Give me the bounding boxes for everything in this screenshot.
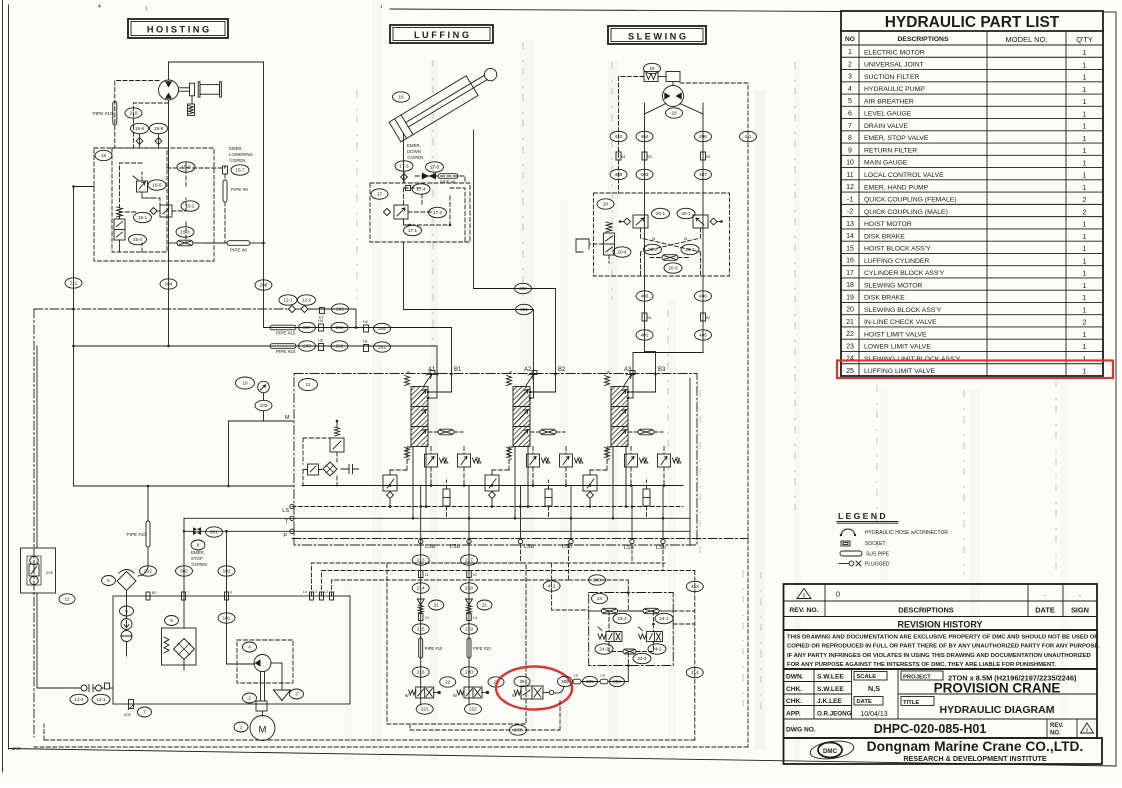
needle valve under 17-3	[401, 172, 408, 184]
pilot dash 413 414	[663, 544, 695, 740]
crossover X wires	[641, 228, 701, 276]
svg-text:301: 301	[520, 307, 528, 312]
svg-text:19: 19	[649, 66, 655, 71]
svg-text:LSa: LSa	[624, 545, 635, 551]
balloon 217	[461, 555, 478, 565]
svg-text:406: 406	[699, 294, 707, 299]
check and pipe #6 luffing	[415, 173, 465, 185]
bank cross wire y485	[302, 485, 683, 487]
svg-text:216: 216	[417, 670, 425, 675]
svg-text:15: 15	[101, 153, 107, 158]
section 3 y485 cross wire	[589, 484, 666, 487]
balloon 25	[514, 676, 530, 686]
fitting L hoist limit chain upper	[418, 571, 428, 578]
svg-text:0: 0	[803, 593, 806, 599]
pipe #10 capsule lower limit chain	[467, 638, 491, 658]
in-line check valve 21 lower limit chain	[466, 599, 473, 613]
balloon 205	[374, 323, 391, 333]
inlet dash box	[303, 438, 330, 464]
LUFFING section title box	[390, 25, 493, 43]
balloon 19	[644, 63, 661, 73]
hydraulic part list table	[841, 11, 1103, 376]
balloon 307	[510, 725, 527, 735]
balloon 602	[176, 566, 193, 576]
balloon 12-2	[70, 694, 88, 704]
svg-text:STOP: STOP	[191, 556, 203, 561]
svg-text:202: 202	[336, 344, 344, 349]
hoist block inner dashed box	[112, 148, 167, 252]
balloon 206	[331, 322, 348, 332]
balloon 20-1 left	[652, 208, 670, 218]
svg-text:12: 12	[846, 184, 854, 191]
balloon 209	[332, 304, 349, 314]
control section 1 spool	[405, 371, 436, 462]
disclaimer text block	[784, 630, 1101, 669]
svg-text:15-4: 15-4	[133, 237, 143, 242]
balloon 218	[461, 583, 478, 593]
hoist limit valve 22	[405, 687, 441, 698]
balloon 17-5	[426, 162, 444, 172]
balloon 203	[299, 341, 316, 351]
svg-text:1: 1	[1083, 344, 1087, 351]
svg-text:W: W	[407, 371, 411, 375]
svg-text:404: 404	[641, 134, 649, 139]
port labels A2 B2	[524, 367, 566, 375]
pilot dash 412	[521, 544, 589, 610]
svg-text:15-3: 15-3	[180, 230, 190, 235]
svg-text:W: W	[607, 371, 611, 375]
section 3 ls shuttle	[643, 480, 650, 518]
svg-text:206: 206	[336, 325, 344, 330]
legend title	[837, 511, 898, 523]
svg-text:DATE: DATE	[1035, 606, 1055, 615]
balloon 17-2	[429, 207, 447, 217]
svg-text:23: 23	[846, 343, 854, 350]
hoist limit chain wire	[420, 540, 422, 705]
svg-text:AIR BREATHER: AIR BREATHER	[864, 98, 914, 105]
balloon 2	[243, 693, 257, 703]
svg-text:LS: LS	[601, 674, 606, 678]
balloon 5	[102, 576, 116, 586]
svg-text:H O I S T I N G: H O I S T I N G	[147, 25, 209, 35]
svg-text:17: 17	[846, 270, 854, 277]
lower limit chain wire	[468, 540, 470, 705]
svg-text:219: 219	[465, 627, 473, 632]
svg-text:PIPE #6: PIPE #6	[230, 248, 247, 253]
balloon 306	[558, 676, 573, 686]
svg-text:EMER, STOP VALVE: EMER, STOP VALVE	[864, 135, 929, 142]
svg-text:TITLE: TITLE	[903, 700, 919, 706]
svg-text:H1: H1	[363, 340, 368, 344]
svg-text:1: 1	[1083, 369, 1087, 376]
lower limit valve 23	[453, 687, 489, 698]
quick couplings 12-1 12-2 to tank	[37, 683, 113, 692]
electric motor 1	[250, 711, 275, 741]
balloon 216	[412, 667, 429, 677]
limit chain box dash	[387, 563, 526, 724]
svg-text:RETURN FILTER: RETURN FILTER	[864, 147, 917, 154]
balloon 23	[488, 677, 504, 687]
svg-text:ELECTRIC MOTOR: ELECTRIC MOTOR	[864, 49, 925, 56]
emer hand pump 12 box	[21, 548, 56, 593]
svg-text:LSb: LSb	[450, 544, 460, 550]
wire slewing A3 B3 crossing	[633, 352, 703, 375]
emer stop label	[191, 550, 207, 567]
pilot dash 303	[569, 544, 633, 593]
svg-text:EMER, HAND PUMP: EMER, HAND PUMP	[864, 184, 929, 191]
svg-text:HOIST LIMIT VALVE: HOIST LIMIT VALVE	[864, 331, 927, 338]
brake pilot dash slewing	[619, 77, 645, 194]
svg-text:61: 61	[622, 155, 626, 159]
slewing drain dash 411	[680, 83, 748, 747]
revision history table	[784, 584, 1098, 630]
svg-text:DMC: DMC	[823, 748, 838, 755]
balloon 408	[695, 131, 712, 141]
balloon 21 lower limit chain	[477, 600, 492, 610]
section 1 port wires	[427, 374, 452, 399]
svg-text:Dongnam Marine Crane CO.,LTD.: Dongnam Marine Crane CO.,LTD.	[867, 739, 1084, 754]
svg-text:16: 16	[846, 258, 854, 265]
svg-text:20: 20	[846, 307, 854, 314]
svg-text:DWN.: DWN.	[786, 674, 804, 681]
svg-text:1: 1	[1083, 234, 1087, 241]
pump 4 dash box	[237, 640, 293, 683]
svg-text:215: 215	[417, 627, 425, 632]
pilot dash from motor to brake pipe	[115, 81, 169, 149]
svg-text:REVISION HISTORY: REVISION HISTORY	[897, 620, 982, 630]
solenoid valve 24-2 left	[598, 627, 622, 642]
balloon 407	[695, 169, 712, 179]
svg-text:602: 602	[180, 569, 188, 574]
fitting L hoist limit chain lower	[418, 614, 428, 621]
pipe #15 run to B1	[264, 319, 452, 336]
svg-text:A3: A3	[624, 367, 632, 373]
svg-text:15-6: 15-6	[135, 126, 145, 131]
crossover relief right 20-1	[693, 215, 723, 228]
balloon 24-2 right	[648, 644, 666, 654]
svg-text:1: 1	[1083, 295, 1087, 302]
svg-text:MODEL NO,: MODEL NO,	[1005, 35, 1047, 44]
svg-text:6: 6	[125, 609, 128, 614]
balloon 24-1 left	[613, 613, 631, 623]
svg-text:203: 203	[303, 344, 311, 349]
svg-text:5: 5	[107, 578, 110, 583]
svg-text:1: 1	[1083, 148, 1087, 155]
svg-text:20-2: 20-2	[685, 247, 695, 252]
svg-text:9: 9	[848, 147, 852, 154]
relief valve 15-5	[133, 176, 152, 198]
svg-text:①OPEN: ①OPEN	[191, 562, 207, 567]
svg-text:PROVISION CRANE: PROVISION CRANE	[934, 681, 1061, 696]
sus fitting and pipe #6 vertical	[223, 166, 249, 202]
disk brake 14 drum	[179, 82, 222, 97]
svg-text:103: 103	[260, 403, 268, 408]
wire B1 drop	[451, 328, 453, 375]
svg-text:6: 6	[848, 110, 852, 117]
svg-text:L1: L1	[425, 573, 429, 577]
svg-text:2: 2	[1083, 209, 1087, 216]
balloon 15-6 top	[131, 123, 149, 133]
balloon 20-4	[613, 247, 631, 257]
svg-text:1: 1	[1083, 136, 1087, 143]
hoist drain drop x148 with pipe10	[127, 485, 151, 576]
balloon 411	[740, 131, 757, 141]
svg-text:204: 204	[165, 282, 173, 287]
balloon 301	[516, 304, 533, 314]
svg-text:11: 11	[306, 382, 311, 387]
svg-text:DESCRIPTIONS: DESCRIPTIONS	[898, 606, 954, 615]
section 3 internal drop wires	[589, 447, 666, 544]
balloon 7	[138, 707, 152, 717]
svg-text:25: 25	[846, 368, 854, 375]
svg-text:IF ANY PARTY INFRINGES OR VIOL: IF ANY PARTY INFRINGES OR VIOLATES IN US…	[787, 653, 1091, 659]
svg-text:1: 1	[1083, 258, 1087, 265]
svg-text:LSb: LSb	[562, 544, 572, 550]
svg-text:20-4: 20-4	[617, 250, 627, 255]
svg-text:303: 303	[593, 578, 601, 583]
svg-text:LEVEL GAUGE: LEVEL GAUGE	[864, 111, 912, 118]
local control valve 11 box	[294, 374, 697, 546]
HOISTING section title box	[128, 19, 228, 38]
slewing block 20 box	[594, 193, 730, 276]
svg-text:1: 1	[1083, 124, 1087, 131]
valve 17-1	[383, 205, 410, 226]
svg-text:Q'TY: Q'TY	[1076, 35, 1093, 44]
port line LS	[282, 504, 683, 514]
svg-text:410: 410	[615, 134, 623, 139]
svg-text:PIPE #15: PIPE #15	[276, 349, 296, 354]
oil tank	[113, 596, 350, 704]
svg-text:4: 4	[848, 86, 852, 93]
wire hoist motor bottom down	[168, 101, 170, 347]
svg-text:212: 212	[144, 569, 152, 574]
svg-text:3: 3	[848, 74, 852, 81]
inlet section components	[303, 420, 359, 486]
balloon 21 hoist limit chain	[429, 600, 444, 610]
title block	[784, 669, 1098, 738]
svg-text:M: M	[684, 237, 687, 241]
svg-text:CYLINDER BLOCK ASS'Y: CYLINDER BLOCK ASS'Y	[864, 270, 945, 277]
svg-text:CHK.: CHK.	[786, 698, 802, 705]
emer stop valve 8	[193, 527, 201, 535]
fitting 61	[616, 152, 626, 160]
balloon 20-2 left	[644, 244, 662, 254]
balloon 214	[412, 583, 429, 593]
svg-text:DOE: DOE	[124, 713, 131, 717]
svg-text:222: 222	[469, 707, 477, 712]
balloon 403	[636, 169, 653, 179]
svg-text:LOWER LIMIT VALVE: LOWER LIMIT VALVE	[864, 344, 931, 351]
balloon 15-3	[176, 227, 194, 237]
svg-text:1: 1	[1083, 246, 1087, 253]
wire block bottom to pipe6	[205, 242, 265, 245]
svg-text:24-1: 24-1	[617, 616, 627, 621]
svg-text:ΔV0: ΔV0	[12, 746, 21, 751]
svg-text:NO: NO	[845, 36, 855, 43]
fitting 51	[642, 313, 652, 321]
svg-text:L4: L4	[473, 616, 477, 620]
in-line check valve 21 hoist limit chain	[417, 599, 424, 613]
svg-text:APP.: APP.	[786, 711, 801, 718]
wire luffing B2 run	[474, 289, 556, 375]
fitting L lower limit chain upper	[467, 571, 477, 578]
balloon 8	[191, 540, 205, 550]
svg-text:M: M	[285, 415, 290, 421]
balloon 12-1	[92, 694, 110, 704]
pipe #15 run to A1	[72, 339, 437, 355]
balloon 213	[412, 555, 429, 565]
fitting L lower limit chain lower	[467, 614, 477, 621]
section 3 port wires	[627, 374, 656, 399]
emer down label luffing	[407, 143, 423, 160]
svg-text:414: 414	[691, 670, 699, 675]
section 2 port wires	[529, 374, 556, 399]
balloon 15	[95, 150, 112, 160]
section 1 internal drop wires	[389, 447, 471, 544]
balloon 17	[371, 189, 388, 199]
control section 2 spool	[507, 371, 538, 462]
svg-text:B2: B2	[558, 367, 566, 373]
svg-text:L2: L2	[473, 573, 477, 577]
luffing limit valve 25	[512, 686, 554, 699]
svg-text:REV. NO.: REV. NO.	[789, 607, 818, 614]
svg-text:UNIVERSAL JOINT: UNIVERSAL JOINT	[864, 62, 924, 69]
balloon 101	[218, 613, 235, 623]
drain row A dash	[312, 563, 665, 596]
balloon 22	[440, 677, 456, 687]
svg-text:53: 53	[648, 155, 652, 159]
section 1 y485 cross wire	[389, 484, 466, 487]
svg-text:LUFFING LIMIT VALVE: LUFFING LIMIT VALVE	[864, 368, 935, 375]
svg-text:210: 210	[130, 111, 138, 116]
balloon 18	[666, 108, 683, 118]
svg-text:·: ·	[1044, 591, 1047, 600]
svg-text:22: 22	[445, 680, 451, 685]
fitting 52	[701, 313, 711, 321]
svg-text:24-2: 24-2	[599, 647, 609, 652]
section 2 relief valve a	[527, 447, 551, 486]
svg-text:PIPE #10: PIPE #10	[127, 532, 147, 537]
fitting 54	[701, 152, 711, 160]
balloon 20-1 right	[677, 208, 695, 218]
balloon 12-1 top	[279, 295, 297, 305]
svg-text:1: 1	[1083, 50, 1087, 57]
svg-text:25: 25	[519, 679, 525, 684]
svg-text:RESEARCH & DEVELOPMENT INSTITU: RESEARCH & DEVELOPMENT INSTITUTE	[903, 754, 1047, 763]
section 3 relief valve b	[658, 447, 682, 486]
wire slewing motor right down	[680, 103, 703, 353]
balloon 410	[610, 131, 627, 141]
balloon 15-5	[148, 180, 166, 190]
svg-text:16: 16	[398, 95, 404, 100]
red circle on valve 25	[496, 667, 572, 710]
svg-text:①OPEN: ①OPEN	[229, 158, 245, 163]
svg-text:15: 15	[846, 245, 854, 252]
valve 24-1 left	[589, 608, 618, 613]
svg-text:PIPE #10: PIPE #10	[425, 646, 443, 651]
svg-text:2: 2	[848, 61, 852, 68]
svg-text:SLEWING LIMIT BLOCK ASS'Y: SLEWING LIMIT BLOCK ASS'Y	[864, 356, 961, 363]
solenoid valve 15-4	[114, 207, 125, 252]
svg-text:8: 8	[197, 543, 200, 548]
svg-text:L E G E N D: L E G E N D	[838, 511, 886, 521]
svg-text:15-2: 15-2	[185, 204, 195, 209]
svg-text:54: 54	[706, 155, 710, 159]
balloon 401	[636, 330, 653, 340]
balloon 305	[583, 676, 598, 686]
left riser to hoist block	[72, 185, 94, 486]
balloon 222	[465, 704, 482, 714]
dash wires inside hoist block	[120, 163, 187, 261]
slewing limit block 24 box	[589, 593, 674, 666]
svg-text:201: 201	[378, 345, 386, 350]
balloon 15-4	[129, 234, 147, 244]
svg-text:13: 13	[846, 221, 854, 228]
port labels A1 B1	[428, 367, 462, 375]
svg-text:DISK BRAKE: DISK BRAKE	[864, 295, 905, 302]
LSa LSb labels row	[425, 544, 666, 551]
solenoid valve 24-2 right	[639, 627, 663, 642]
return filter 9	[162, 628, 197, 670]
svg-text:220: 220	[465, 670, 473, 675]
balloon 20-3	[664, 263, 682, 273]
svg-text:DHPC-020-085-H01: DHPC-020-085-H01	[874, 722, 987, 736]
svg-text:2: 2	[1083, 320, 1087, 327]
svg-text:412: 412	[548, 584, 556, 589]
balloon 102	[218, 566, 235, 576]
svg-text:DESCRIPTIONS: DESCRIPTIONS	[898, 36, 949, 43]
balloon 4	[243, 642, 257, 652]
svg-text:EMER,: EMER,	[191, 550, 205, 555]
svg-text:11: 11	[846, 172, 853, 179]
svg-text:HOIST MOTOR: HOIST MOTOR	[864, 221, 912, 228]
svg-text:401: 401	[641, 333, 649, 338]
svg-text:305: 305	[586, 679, 594, 684]
svg-text:W: W	[453, 693, 457, 698]
main gauge 10	[258, 381, 270, 400]
drain row C dash	[332, 580, 569, 596]
balloon 304	[610, 676, 625, 686]
valve 15-1 with check	[150, 205, 172, 217]
svg-text:17-4: 17-4	[416, 187, 426, 192]
balloon 212	[140, 566, 157, 576]
balloon 404	[636, 131, 653, 141]
balloon 24-1 right	[655, 613, 673, 623]
svg-text:1: 1	[1083, 332, 1087, 339]
hoist block 15 outer dashed box	[94, 148, 214, 261]
svg-text:24: 24	[597, 596, 603, 601]
svg-text:20-2: 20-2	[648, 247, 658, 252]
svg-text:102: 102	[223, 569, 231, 574]
svg-text:207: 207	[303, 325, 311, 330]
svg-text:DISK BRAKE: DISK BRAKE	[864, 233, 905, 240]
control section 3 spool	[605, 371, 636, 462]
SLEWING section title box	[608, 26, 706, 44]
svg-text:402: 402	[641, 294, 649, 299]
block 24 internal wires	[609, 591, 655, 667]
suction filter 3	[274, 663, 291, 701]
svg-text:302: 302	[519, 286, 527, 291]
svg-text:10: 10	[242, 381, 248, 386]
svg-text:2: 2	[1083, 197, 1087, 204]
section 1 compensator	[383, 447, 411, 507]
balloon 17-4	[412, 184, 430, 194]
balloon 204	[160, 279, 177, 289]
cylinder block 17 box	[370, 183, 470, 242]
svg-text:1: 1	[848, 49, 852, 56]
svg-text:P: P	[283, 533, 287, 539]
svg-text:2: 2	[248, 696, 251, 701]
